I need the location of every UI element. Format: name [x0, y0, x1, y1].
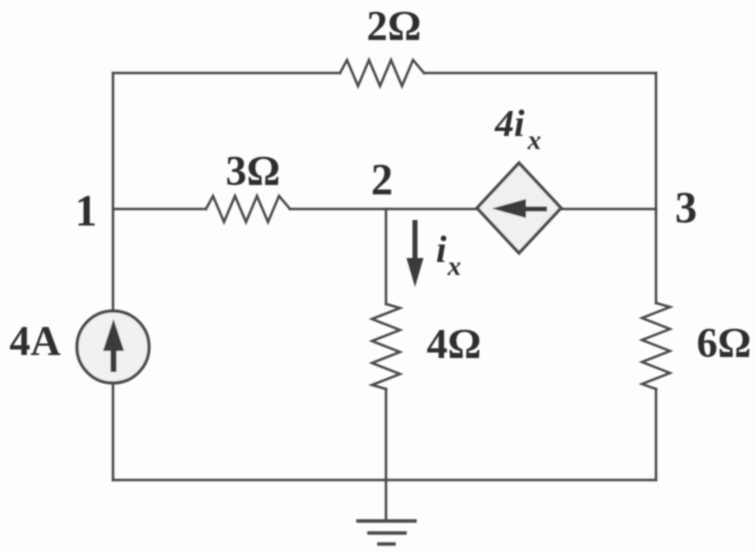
wire: center branch 4ohm to bottom rail [385, 389, 388, 480]
wire: right vertical upper (top corner to 6ohm) [655, 73, 658, 303]
dependent source 4ix diamond [477, 163, 561, 253]
wire: top right segment R 2ohm to node3 corner [424, 72, 656, 75]
svg-text:4Ω: 4Ω [427, 322, 482, 368]
wire: center branch node2 to R 4ohm [385, 209, 388, 304]
arrow inside 4A source (up) [103, 319, 124, 372]
arrow inside diamond (left) [492, 199, 547, 218]
resistor 4ohm zigzag [372, 304, 400, 389]
svg-text:2: 2 [371, 155, 393, 204]
wire: right vertical lower (6ohm to bottom) [655, 389, 658, 480]
svg-text:3: 3 [675, 183, 697, 232]
ground symbol bars [358, 521, 415, 544]
svg-text:4A: 4A [9, 319, 61, 365]
current arrow ix (down) [407, 220, 424, 287]
wire: middle R 3ohm to diamond [290, 208, 477, 211]
wire: left vertical lower (source to bottom) [112, 383, 115, 480]
wire: middle node1 to R 3ohm [113, 208, 206, 211]
wire: middle diamond to node3 [561, 208, 656, 211]
wire: bottom rail [113, 479, 656, 482]
resistor 3ohm zigzag [206, 196, 290, 222]
resistor 2ohm zigzag [340, 60, 424, 86]
svg-text:6Ω: 6Ω [697, 321, 752, 367]
svg-text:1: 1 [75, 186, 97, 235]
current source I1 4A circle [77, 311, 149, 383]
svg-text:3Ω: 3Ω [226, 149, 281, 195]
resistor 6ohm zigzag [642, 303, 670, 389]
wire: left vertical upper (node1 up to top wire) [112, 73, 115, 311]
wire: top left segment node1 to R 2ohm [113, 72, 340, 75]
svg-text:2Ω: 2Ω [367, 4, 422, 50]
wire: ground stem [385, 480, 388, 521]
